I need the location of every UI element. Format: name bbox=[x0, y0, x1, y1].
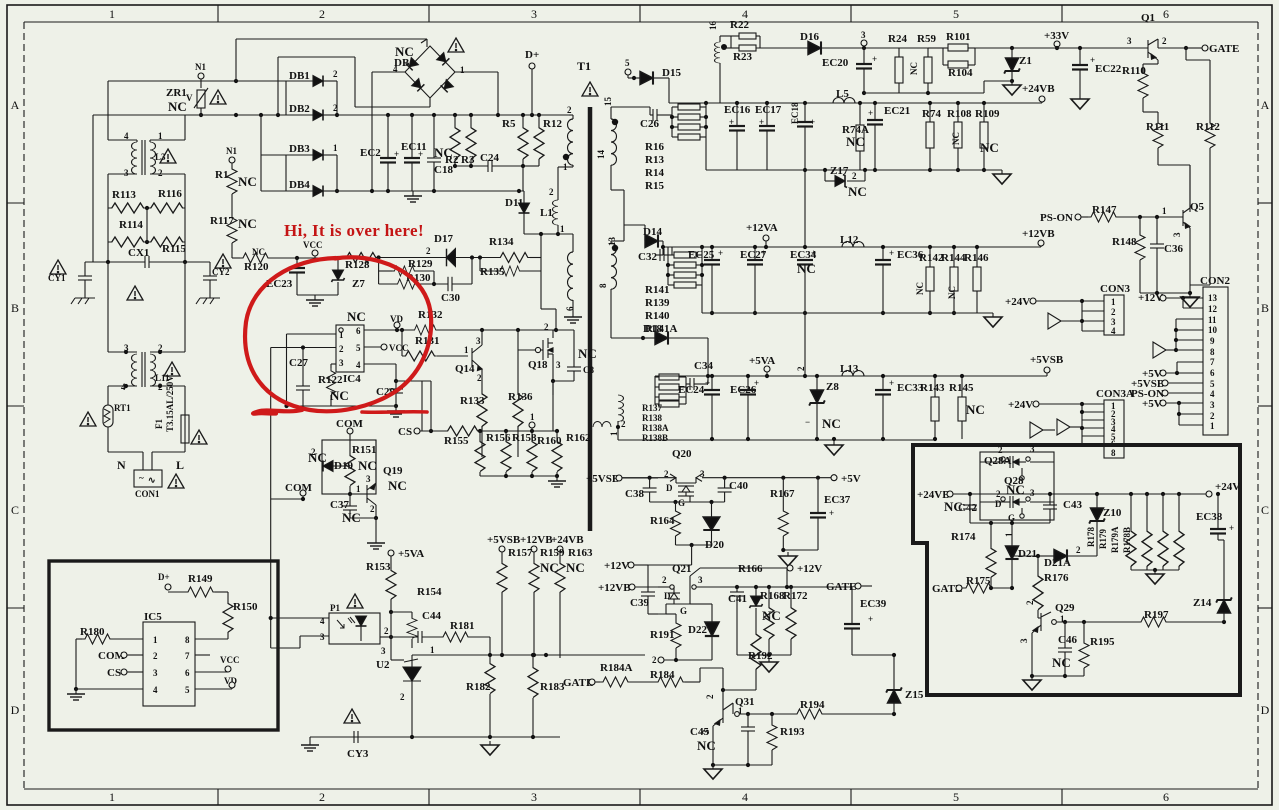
node +5VA bbox=[388, 550, 394, 556]
svg-text:NC: NC bbox=[966, 402, 985, 417]
svg-text:Hi, It is over here!: Hi, It is over here! bbox=[284, 221, 424, 240]
svg-text:2: 2 bbox=[339, 344, 344, 354]
pin4 wire to C29 bbox=[364, 363, 396, 365]
svg-text:2: 2 bbox=[153, 651, 158, 661]
svg-text:−: − bbox=[805, 417, 810, 427]
svg-text:NC: NC bbox=[951, 132, 961, 145]
svg-text:+12VB: +12VB bbox=[598, 582, 631, 594]
svg-text:P1: P1 bbox=[330, 603, 340, 613]
svg-text:+5VA: +5VA bbox=[749, 355, 775, 367]
svg-text:NC: NC bbox=[762, 608, 781, 623]
wire from C29 area bbox=[396, 380, 431, 382]
svg-text:GATE: GATE bbox=[1209, 43, 1239, 55]
svg-text:Z15: Z15 bbox=[905, 689, 924, 701]
svg-text:+12VB: +12VB bbox=[1022, 228, 1055, 240]
svg-text:C44: C44 bbox=[422, 610, 441, 622]
rail lower y313 bbox=[702, 312, 993, 314]
svg-text:D: D bbox=[11, 703, 20, 717]
svg-text:3: 3 bbox=[531, 790, 537, 804]
svg-text:1: 1 bbox=[464, 345, 469, 355]
svg-text:CON1: CON1 bbox=[135, 489, 160, 499]
warning triangle bbox=[448, 38, 464, 52]
svg-text:C38: C38 bbox=[625, 488, 644, 500]
svg-text:9: 9 bbox=[1210, 336, 1215, 346]
svg-text:5: 5 bbox=[953, 790, 959, 804]
svg-text:3: 3 bbox=[339, 358, 344, 368]
wire left vert bbox=[107, 81, 109, 140]
svg-text:4: 4 bbox=[356, 360, 361, 370]
svg-text:EC17: EC17 bbox=[755, 104, 782, 116]
pin8 wire bbox=[195, 638, 228, 640]
svg-text:R16: R16 bbox=[645, 141, 664, 153]
svg-text:+: + bbox=[872, 54, 877, 64]
svg-text:R176: R176 bbox=[1044, 572, 1069, 584]
svg-text:G: G bbox=[680, 606, 687, 616]
svg-text:2: 2 bbox=[652, 655, 657, 665]
svg-text:R159: R159 bbox=[540, 547, 565, 559]
svg-text:+: + bbox=[1090, 55, 1095, 65]
svg-text:Q5: Q5 bbox=[1190, 201, 1205, 213]
svg-text:R74: R74 bbox=[922, 108, 941, 120]
svg-text:+5V: +5V bbox=[841, 473, 861, 485]
box bbox=[322, 440, 376, 494]
svg-text:R59: R59 bbox=[917, 33, 936, 45]
svg-text:4: 4 bbox=[1111, 326, 1116, 336]
rail +12VA y247 bbox=[663, 246, 1041, 248]
T1 primary aux winding pin6 bbox=[572, 234, 574, 252]
svg-text:Q18: Q18 bbox=[528, 359, 548, 371]
rail +5VA y377 bbox=[655, 375, 1047, 377]
svg-text:1: 1 bbox=[530, 412, 535, 422]
svg-text:12: 12 bbox=[1208, 304, 1218, 314]
svg-text:R174: R174 bbox=[951, 531, 976, 543]
svg-text:3: 3 bbox=[124, 168, 129, 178]
svg-text:1: 1 bbox=[560, 224, 565, 234]
warning triangle bbox=[164, 362, 180, 376]
wire bridge left to lower rail bbox=[372, 71, 405, 73]
svg-text:N1: N1 bbox=[226, 146, 237, 156]
wire emitter rail bbox=[1032, 675, 1084, 677]
svg-text:8: 8 bbox=[185, 635, 190, 645]
svg-text:3: 3 bbox=[698, 575, 703, 585]
svg-text:T3.15AL/250V: T3.15AL/250V bbox=[165, 375, 175, 432]
svg-text:DB2: DB2 bbox=[289, 103, 310, 115]
svg-text:∿: ∿ bbox=[148, 475, 156, 485]
svg-text:14: 14 bbox=[596, 150, 606, 160]
node +12V bbox=[787, 565, 793, 571]
rail y103 bbox=[649, 107, 651, 115]
svg-text:2: 2 bbox=[477, 373, 482, 383]
svg-text:15: 15 bbox=[603, 97, 613, 107]
svg-text:NC: NC bbox=[578, 346, 597, 361]
pin4 wire + ground bbox=[76, 688, 143, 690]
svg-text:R114: R114 bbox=[119, 219, 143, 231]
arrow ground under R182 bbox=[481, 741, 499, 755]
svg-text:IC4: IC4 bbox=[343, 373, 361, 385]
capacitor CY1 bbox=[50, 260, 66, 274]
svg-text:+: + bbox=[868, 614, 873, 624]
svg-text:R157: R157 bbox=[508, 547, 533, 559]
wire bottom bbox=[480, 475, 557, 477]
svg-text:R1: R1 bbox=[215, 169, 228, 181]
box frame bbox=[49, 561, 278, 730]
svg-text:D16: D16 bbox=[800, 31, 819, 43]
svg-text:R22: R22 bbox=[730, 19, 749, 31]
svg-text:1: 1 bbox=[339, 330, 344, 340]
svg-text:5: 5 bbox=[356, 343, 361, 353]
svg-text:U2: U2 bbox=[376, 659, 390, 671]
svg-text:D17: D17 bbox=[434, 233, 453, 245]
svg-text:2: 2 bbox=[664, 469, 669, 479]
svg-text:2: 2 bbox=[1210, 411, 1215, 421]
svg-text:CON2: CON2 bbox=[1200, 275, 1230, 287]
warning triangle bbox=[582, 82, 598, 96]
svg-text:2: 2 bbox=[158, 168, 163, 178]
node VCC2 bbox=[364, 346, 381, 348]
ground bbox=[984, 313, 1002, 327]
svg-text:NC: NC bbox=[822, 416, 841, 431]
wire bridge right bbox=[455, 71, 498, 73]
ground bbox=[1003, 81, 1021, 95]
svg-text:2: 2 bbox=[796, 366, 806, 371]
svg-text:R116: R116 bbox=[158, 188, 182, 200]
svg-text:+: + bbox=[754, 378, 759, 388]
svg-text:NC: NC bbox=[915, 282, 925, 295]
svg-text:V: V bbox=[186, 93, 193, 103]
svg-text:~: ~ bbox=[139, 473, 144, 483]
chassis ground bbox=[71, 294, 95, 304]
svg-text:VCC: VCC bbox=[303, 240, 323, 250]
svg-text:D: D bbox=[1261, 703, 1270, 717]
wire bottom bbox=[713, 764, 772, 766]
svg-text:Z14: Z14 bbox=[1193, 597, 1212, 609]
svg-text:C: C bbox=[1261, 503, 1269, 517]
svg-text:2: 2 bbox=[384, 626, 389, 636]
svg-text:C32: C32 bbox=[638, 251, 657, 263]
svg-text:R193: R193 bbox=[780, 726, 805, 738]
svg-text:NC: NC bbox=[308, 450, 327, 465]
svg-text:A: A bbox=[11, 98, 20, 112]
svg-text:CON3: CON3 bbox=[1100, 283, 1130, 295]
svg-text:+12V: +12V bbox=[797, 563, 822, 575]
ground bbox=[301, 740, 319, 751]
svg-text:+: + bbox=[761, 248, 766, 258]
svg-text:2: 2 bbox=[662, 575, 667, 585]
wire Q18 source to CS rail bbox=[553, 380, 574, 382]
svg-text:R5: R5 bbox=[502, 118, 516, 130]
svg-text:NC: NC bbox=[330, 388, 349, 403]
svg-text:6: 6 bbox=[356, 326, 361, 336]
svg-text:3: 3 bbox=[556, 360, 561, 370]
svg-text:R164: R164 bbox=[650, 515, 675, 527]
svg-text:C24: C24 bbox=[480, 152, 499, 164]
svg-text:Q28A: Q28A bbox=[984, 455, 1012, 467]
svg-text:6: 6 bbox=[1163, 790, 1169, 804]
svg-text:2: 2 bbox=[705, 694, 715, 699]
svg-text:1: 1 bbox=[1162, 206, 1167, 216]
svg-text:R136: R136 bbox=[508, 391, 533, 403]
pin7 stub bbox=[195, 654, 210, 656]
svg-text:4: 4 bbox=[153, 685, 158, 695]
svg-text:1: 1 bbox=[1111, 297, 1116, 307]
svg-text:L1: L1 bbox=[540, 207, 553, 219]
ground bbox=[1146, 570, 1164, 584]
svg-text:G: G bbox=[678, 498, 685, 508]
svg-text:3: 3 bbox=[531, 7, 537, 21]
svg-text:D+: D+ bbox=[525, 49, 539, 61]
svg-text:EC38: EC38 bbox=[1196, 511, 1223, 523]
IC U3 (IC4) bbox=[336, 325, 364, 372]
svg-text:R154: R154 bbox=[417, 586, 442, 598]
svg-text:NC: NC bbox=[388, 478, 407, 493]
svg-text:7: 7 bbox=[185, 651, 190, 661]
svg-text:B: B bbox=[11, 301, 19, 315]
svg-text:Z8: Z8 bbox=[826, 381, 839, 393]
svg-text:EC18: EC18 bbox=[790, 102, 800, 124]
svg-text:C36: C36 bbox=[1164, 243, 1183, 255]
svg-text:R181: R181 bbox=[450, 620, 474, 632]
svg-text:+12VA: +12VA bbox=[746, 222, 778, 234]
ground bbox=[309, 737, 311, 740]
pin6 wire bbox=[364, 329, 412, 331]
svg-text:R104: R104 bbox=[948, 67, 973, 79]
svg-text:2: 2 bbox=[998, 445, 1003, 455]
svg-text:R109: R109 bbox=[975, 108, 1000, 120]
svg-text:+: + bbox=[705, 378, 710, 388]
node +5V bbox=[831, 475, 837, 481]
svg-text:Q19: Q19 bbox=[383, 465, 403, 477]
svg-text:3: 3 bbox=[861, 30, 866, 40]
svg-text:Z17: Z17 bbox=[830, 165, 849, 177]
svg-text:C45: C45 bbox=[690, 726, 709, 738]
warning triangle bbox=[191, 430, 207, 444]
svg-text:A: A bbox=[1261, 98, 1270, 112]
svg-text:R3: R3 bbox=[461, 154, 475, 166]
thermistor RT1 bbox=[80, 412, 96, 426]
svg-text:+5VSB: +5VSB bbox=[586, 473, 620, 485]
svg-text:3: 3 bbox=[320, 632, 325, 642]
svg-text:+12V: +12V bbox=[604, 560, 629, 572]
pin1/pin2 wires left bbox=[287, 333, 337, 335]
svg-text:CY3: CY3 bbox=[347, 748, 369, 760]
svg-text:C46: C46 bbox=[1058, 634, 1077, 646]
wire COM bus bbox=[271, 498, 303, 500]
svg-text:3: 3 bbox=[1019, 638, 1029, 643]
svg-text:D: D bbox=[666, 483, 673, 493]
wire bottom bbox=[676, 544, 712, 546]
svg-text:R178: R178 bbox=[1086, 527, 1096, 547]
svg-text:R108: R108 bbox=[947, 108, 972, 120]
svg-text:R153: R153 bbox=[366, 561, 391, 573]
svg-text:EC22: EC22 bbox=[1095, 63, 1122, 75]
svg-text:R151: R151 bbox=[352, 444, 376, 456]
svg-text:6: 6 bbox=[1163, 7, 1169, 21]
ground bbox=[404, 191, 422, 202]
svg-text:+24V: +24V bbox=[1008, 399, 1033, 411]
svg-text:2: 2 bbox=[319, 790, 325, 804]
svg-text:16: 16 bbox=[708, 21, 718, 31]
warning triangle bbox=[210, 90, 226, 104]
svg-text:R163: R163 bbox=[568, 547, 593, 559]
connector CON1 bbox=[134, 470, 162, 487]
svg-text:3: 3 bbox=[153, 668, 158, 678]
wire bbox=[200, 79, 202, 88]
svg-text:2: 2 bbox=[426, 246, 431, 256]
svg-text:10: 10 bbox=[1208, 325, 1218, 335]
ground bbox=[387, 406, 405, 417]
svg-text:2: 2 bbox=[1025, 600, 1035, 605]
svg-text:PS-ON: PS-ON bbox=[1040, 212, 1073, 224]
T1 core bbox=[588, 107, 593, 531]
shield arrow pins 9-11 bbox=[1153, 342, 1166, 358]
shield arrow bbox=[1057, 419, 1070, 435]
svg-text:C8: C8 bbox=[583, 365, 594, 375]
svg-text:+5VSB: +5VSB bbox=[487, 534, 521, 546]
svg-text:1: 1 bbox=[109, 790, 115, 804]
svg-text:NC: NC bbox=[848, 184, 867, 199]
svg-text:VCC: VCC bbox=[389, 343, 409, 353]
svg-text:NC: NC bbox=[846, 134, 865, 149]
svg-text:EC37: EC37 bbox=[824, 494, 851, 506]
svg-text:RT1: RT1 bbox=[114, 403, 131, 413]
svg-text:1: 1 bbox=[430, 645, 435, 655]
svg-text:1: 1 bbox=[109, 7, 115, 21]
svg-text:Q29: Q29 bbox=[1055, 602, 1075, 614]
wire bottom row5 bbox=[737, 654, 791, 656]
svg-text:NC: NC bbox=[797, 261, 816, 276]
svg-text:CS: CS bbox=[398, 426, 412, 438]
svg-text:NC: NC bbox=[358, 458, 377, 473]
svg-text:3: 3 bbox=[1172, 232, 1182, 237]
svg-text:VCC: VCC bbox=[220, 655, 240, 665]
node +24V bbox=[1206, 491, 1212, 497]
svg-text:DB4: DB4 bbox=[289, 179, 310, 191]
svg-text:2: 2 bbox=[852, 171, 857, 181]
svg-text:11: 11 bbox=[1208, 315, 1217, 325]
svg-text:R141: R141 bbox=[645, 284, 669, 296]
svg-text:R179: R179 bbox=[1098, 529, 1108, 549]
wire +5VSB rail bbox=[622, 477, 676, 479]
svg-text:+: + bbox=[889, 378, 894, 388]
R133/R136 into row bbox=[481, 426, 483, 431]
svg-text:+24VB: +24VB bbox=[551, 534, 584, 546]
svg-text:2: 2 bbox=[567, 105, 572, 115]
svg-text:R143: R143 bbox=[920, 382, 945, 394]
svg-text:R148: R148 bbox=[1112, 236, 1137, 248]
svg-text:6: 6 bbox=[1210, 368, 1215, 378]
svg-text:EC2: EC2 bbox=[360, 147, 381, 159]
svg-text:COM: COM bbox=[285, 482, 313, 494]
wire lower rail y191 bbox=[261, 190, 524, 192]
svg-text:Q20: Q20 bbox=[672, 448, 692, 460]
svg-text:R166: R166 bbox=[738, 563, 763, 575]
svg-text:R15: R15 bbox=[645, 180, 664, 192]
svg-text:EC39: EC39 bbox=[860, 598, 887, 610]
rail lower y170 bbox=[706, 169, 1002, 171]
ground bbox=[367, 538, 385, 549]
svg-text:EC21: EC21 bbox=[884, 105, 910, 117]
ground bbox=[1071, 95, 1089, 109]
svg-text:CY1: CY1 bbox=[48, 273, 66, 283]
svg-text:1: 1 bbox=[609, 431, 619, 436]
svg-text:Q21: Q21 bbox=[672, 563, 692, 575]
svg-text:C40: C40 bbox=[729, 480, 748, 492]
warning triangle bbox=[160, 149, 176, 163]
svg-text:R168: R168 bbox=[760, 590, 785, 602]
svg-text:C27: C27 bbox=[289, 357, 308, 369]
svg-text:R149: R149 bbox=[188, 573, 213, 585]
svg-text:Z1: Z1 bbox=[1019, 55, 1032, 67]
svg-text:CON3A: CON3A bbox=[1096, 388, 1134, 400]
svg-text:R24: R24 bbox=[888, 33, 907, 45]
svg-text:R138B: R138B bbox=[642, 433, 668, 443]
svg-text:5: 5 bbox=[625, 58, 630, 68]
svg-text:2: 2 bbox=[996, 489, 1001, 499]
svg-text:R172: R172 bbox=[783, 590, 808, 602]
svg-text:B: B bbox=[1261, 301, 1269, 315]
svg-text:+12VB: +12VB bbox=[520, 534, 553, 546]
svg-text:R179A: R179A bbox=[1110, 526, 1120, 553]
svg-text:5: 5 bbox=[185, 685, 190, 695]
svg-text:2: 2 bbox=[1162, 36, 1167, 46]
ground bbox=[760, 658, 778, 672]
svg-text:D21: D21 bbox=[1018, 548, 1037, 560]
svg-text:C34: C34 bbox=[694, 360, 713, 372]
svg-text:R13: R13 bbox=[645, 154, 664, 166]
svg-text:R194: R194 bbox=[800, 699, 825, 711]
svg-text:+: + bbox=[1229, 523, 1234, 533]
svg-text:R112: R112 bbox=[1196, 121, 1220, 133]
svg-text:R138: R138 bbox=[642, 413, 662, 423]
svg-text:GATE: GATE bbox=[826, 581, 856, 593]
wire rail y115 bbox=[93, 114, 286, 116]
svg-text:NC: NC bbox=[238, 174, 257, 189]
wire gate row bbox=[650, 501, 725, 503]
svg-text:7: 7 bbox=[1210, 357, 1215, 367]
svg-text:+5V: +5V bbox=[1142, 398, 1162, 410]
wire R24/R59 bottoms bbox=[899, 92, 984, 94]
svg-text:2: 2 bbox=[370, 504, 375, 514]
svg-text:R23: R23 bbox=[733, 51, 752, 63]
svg-text:R195: R195 bbox=[1090, 636, 1115, 648]
svg-text:R101: R101 bbox=[946, 31, 970, 43]
svg-text:R113: R113 bbox=[112, 189, 136, 201]
svg-text:NC: NC bbox=[347, 309, 366, 324]
svg-text:R184A: R184A bbox=[600, 662, 632, 674]
svg-text:1: 1 bbox=[153, 635, 158, 645]
svg-text:2: 2 bbox=[319, 7, 325, 21]
svg-text:5: 5 bbox=[1210, 379, 1215, 389]
svg-text:+: + bbox=[811, 248, 816, 258]
svg-text:R117: R117 bbox=[210, 215, 234, 227]
svg-text:N: N bbox=[117, 458, 126, 472]
svg-text:+24V: +24V bbox=[1005, 296, 1030, 308]
svg-text:D+: D+ bbox=[158, 572, 170, 582]
svg-text:R150: R150 bbox=[233, 601, 258, 613]
svg-text:R120: R120 bbox=[244, 261, 269, 273]
svg-text:R134: R134 bbox=[489, 236, 514, 248]
svg-text:3: 3 bbox=[1210, 400, 1215, 410]
svg-text:C43: C43 bbox=[1063, 499, 1082, 511]
svg-text:1: 1 bbox=[460, 65, 465, 75]
svg-text:5: 5 bbox=[953, 7, 959, 21]
svg-text:NC: NC bbox=[909, 62, 919, 75]
svg-text:D15: D15 bbox=[662, 67, 681, 79]
svg-text:3: 3 bbox=[381, 646, 386, 656]
shield arrow low bbox=[1030, 422, 1043, 438]
svg-text:+33V: +33V bbox=[1044, 30, 1069, 42]
rail lower y439 bbox=[618, 439, 935, 441]
